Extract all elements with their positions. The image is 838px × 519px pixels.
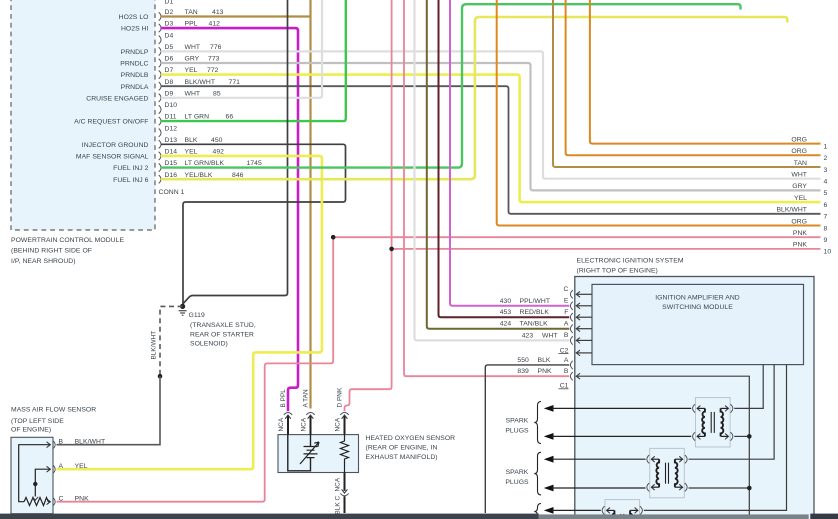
spark plug arrow 2: [544, 433, 554, 440]
svg-text:423: 423: [522, 332, 534, 339]
svg-text:D2: D2: [165, 9, 174, 16]
svg-text:LT GRN/BLK: LT GRN/BLK: [185, 160, 225, 167]
svg-text:YEL: YEL: [185, 149, 198, 156]
node D12: [159, 129, 161, 137]
svg-text:TAN: TAN: [185, 9, 198, 16]
svg-text:D10: D10: [165, 102, 178, 109]
svg-text:776: 776: [210, 44, 222, 51]
svg-text:PLUGS: PLUGS: [505, 427, 529, 434]
wire BLK 450 branch from top to G119: [183, 0, 288, 306]
node D16: [159, 175, 161, 183]
svg-text:YEL/BLK: YEL/BLK: [185, 172, 213, 179]
electronic ignition system box: [575, 277, 814, 519]
wire WHT 85 D9 up to top: [161, 0, 322, 98]
svg-text:PNK: PNK: [538, 368, 553, 375]
svg-text:7: 7: [824, 214, 828, 221]
svg-text:LT GRN: LT GRN: [185, 114, 210, 121]
ignition coil T3: [605, 500, 640, 519]
svg-text:ORG: ORG: [791, 148, 807, 155]
svg-text:A: A: [59, 463, 64, 470]
svg-text:NCA: NCA: [300, 417, 307, 431]
pin arrow B: [576, 338, 579, 343]
node HO2S ground pin C BLK: [344, 473, 346, 491]
node D8: [159, 82, 161, 90]
svg-text:D7: D7: [165, 67, 174, 74]
svg-text:A: A: [564, 321, 569, 328]
svg-text:A: A: [564, 357, 569, 364]
svg-text:B PPL: B PPL: [280, 389, 287, 408]
wire YEL 772 D7 to terminal 6: [161, 75, 821, 203]
node ignition pin F: [570, 313, 572, 321]
wire coil T3 top to module: [644, 365, 787, 511]
node D15: [159, 163, 161, 171]
node D9: [159, 94, 161, 102]
svg-text:WHT: WHT: [791, 172, 807, 179]
svg-text:BLK/WHT: BLK/WHT: [151, 331, 158, 360]
svg-text:E: E: [564, 298, 569, 305]
svg-text:B: B: [564, 332, 569, 339]
svg-text:CRUISE ENGAGED: CRUISE ENGAGED: [86, 95, 148, 102]
svg-text:D15: D15: [165, 160, 178, 167]
node D5: [159, 47, 161, 55]
svg-text:OF ENGINE): OF ENGINE): [11, 426, 51, 433]
svg-text:846: 846: [232, 172, 244, 179]
svg-text:A/C REQUEST ON/OFF: A/C REQUEST ON/OFF: [74, 119, 148, 126]
node MAF pin C: [53, 498, 55, 506]
svg-text:YEL: YEL: [794, 195, 807, 202]
svg-text:D12: D12: [165, 125, 178, 132]
svg-text:1745: 1745: [247, 160, 262, 167]
svg-text:(RIGHT TOP OF ENGINE): (RIGHT TOP OF ENGINE): [577, 267, 658, 274]
wire BLK 550 to ignition C1-A: [485, 365, 569, 513]
wire GRY 773 D6 to terminal 5: [161, 63, 821, 190]
wire PNK 839 from top to ignition B: [404, 0, 569, 376]
svg-text:D6: D6: [165, 56, 174, 63]
svg-text:PNK: PNK: [75, 496, 90, 503]
pin arrow E: [576, 303, 579, 308]
svg-text:492: 492: [213, 149, 225, 156]
wire TAN/BLK 424 to ignition A: [427, 0, 570, 329]
wire RED/BLK 453 to ignition F: [439, 0, 570, 317]
svg-text:PNK: PNK: [793, 242, 808, 249]
svg-text:PRNDLA: PRNDLA: [121, 84, 149, 91]
svg-text:PRNDLC: PRNDLC: [120, 61, 148, 68]
HO2S sensing element (variable emf): [288, 435, 311, 471]
svg-text:453: 453: [500, 309, 512, 316]
svg-text:839: 839: [517, 368, 529, 375]
wire TAN 413 horizontal from D2: [161, 15, 311, 17]
ground bus band (right dark segment): [810, 514, 838, 519]
svg-text:PLUGS: PLUGS: [505, 479, 529, 486]
wire PNK from top to HO2S D: [345, 0, 392, 411]
svg-text:413: 413: [212, 9, 224, 16]
wire BLK 450 D13 toward G119: [161, 144, 346, 306]
svg-text:YEL: YEL: [185, 67, 198, 74]
pin arrow F: [576, 315, 579, 320]
wire coil T2 top to module: [689, 365, 775, 460]
svg-text:66: 66: [226, 114, 234, 121]
svg-text:HO2S LO: HO2S LO: [119, 14, 149, 21]
svg-text:BLK C: BLK C: [334, 495, 341, 514]
wire ORG 8 terminal: [497, 0, 821, 226]
svg-text:85: 85: [213, 90, 221, 97]
svg-text:CONN 1: CONN 1: [159, 189, 185, 196]
splice junction S2 PNK: [389, 247, 394, 252]
svg-text:D PNK: D PNK: [336, 387, 343, 407]
svg-text:MASS AIR FLOW SENSOR: MASS AIR FLOW SENSOR: [11, 407, 96, 414]
wire BLK/WHT MAF B to splice: [57, 376, 161, 445]
svg-text:C: C: [59, 496, 64, 503]
wire WHT 776 D5 to terminal 4: [161, 51, 821, 178]
svg-text:430: 430: [500, 298, 512, 305]
svg-text:RED/BLK: RED/BLK: [520, 309, 550, 316]
svg-text:ELECTRONIC IGNITION SYSTEM: ELECTRONIC IGNITION SYSTEM: [577, 258, 684, 265]
svg-text:A TAN: A TAN: [302, 389, 309, 407]
wire YEL 492 D14 to MAF A: [57, 156, 322, 469]
svg-text:SWITCHING MODULE: SWITCHING MODULE: [662, 304, 733, 311]
node HO2S pin B: [284, 413, 292, 415]
node D4: [159, 36, 161, 44]
spark plug arrow 1: [544, 405, 554, 412]
svg-text:3: 3: [824, 167, 828, 174]
spark plugs brace 3: [534, 504, 541, 519]
spark plug arrow 4: [544, 485, 554, 492]
node D10: [159, 105, 161, 113]
svg-text:D3: D3: [165, 21, 174, 28]
svg-text:772: 772: [207, 67, 219, 74]
MAF internal circuit: [19, 445, 51, 502]
resistor in MAF: [24, 498, 50, 506]
node HO2S pin A: [306, 413, 314, 415]
svg-text:SPARK: SPARK: [506, 417, 529, 424]
svg-text:GRY: GRY: [792, 183, 807, 190]
svg-text:HEATED OXYGEN SENSOR: HEATED OXYGEN SENSOR: [366, 435, 456, 442]
ignition amplifier and switching module box U1: [592, 284, 804, 364]
wire YEL/BLK 846 D16 across top: [161, 17, 787, 179]
svg-text:WHT: WHT: [185, 90, 201, 97]
node D13: [159, 140, 161, 148]
wire TAN 413 (D2 to HO2S A, also up): [309, 0, 311, 409]
svg-text:EXHAUST MANIFOLD): EXHAUST MANIFOLD): [366, 454, 438, 461]
wire LT GRN 66 D11 up to top: [161, 0, 346, 121]
svg-text:FUEL INJ 2: FUEL INJ 2: [113, 165, 149, 172]
svg-text:TAN/BLK: TAN/BLK: [520, 321, 549, 328]
svg-text:BLK/WHT: BLK/WHT: [75, 439, 106, 446]
svg-text:C: C: [564, 286, 569, 293]
svg-text:D11: D11: [165, 114, 177, 121]
svg-text:1: 1: [824, 143, 828, 150]
svg-text:G119: G119: [189, 312, 205, 319]
splice junction S1 PNK: [331, 235, 336, 240]
svg-text:BLK: BLK: [538, 357, 551, 364]
svg-text:WHT: WHT: [185, 44, 201, 51]
node D11: [159, 117, 161, 125]
svg-text:NCA: NCA: [334, 477, 341, 491]
svg-text:BLK/WHT: BLK/WHT: [185, 79, 216, 86]
svg-text:I/P, NEAR SHROUD): I/P, NEAR SHROUD): [11, 258, 76, 265]
ignition coil T1: [696, 398, 731, 447]
heated oxygen sensor box: [278, 435, 359, 473]
svg-text:NCA: NCA: [334, 417, 341, 431]
svg-text:D1: D1: [165, 0, 174, 6]
svg-text:773: 773: [208, 56, 220, 63]
wire BLK/WHT dashed to G119: [160, 306, 183, 376]
node ignition pin A: [570, 325, 572, 333]
pin arrow C: [576, 292, 579, 297]
svg-text:INJECTOR GROUND: INJECTOR GROUND: [82, 142, 149, 149]
svg-text:BLK/WHT: BLK/WHT: [776, 207, 807, 214]
pin arrow A: [576, 326, 579, 331]
svg-text:PPL: PPL: [185, 21, 198, 28]
svg-text:B: B: [59, 439, 64, 446]
svg-text:ORG: ORG: [791, 136, 807, 143]
spark plugs brace 1: [534, 402, 541, 444]
node ignition pin A 550 BLK: [570, 361, 572, 369]
node ignition pin E: [570, 302, 572, 310]
node MAF pin A: [53, 465, 55, 473]
HO2S heater element: [341, 435, 349, 473]
svg-text:D9: D9: [165, 90, 174, 97]
wire PNK terminal 10 from splice S2: [392, 248, 821, 250]
svg-text:412: 412: [209, 21, 221, 28]
wire BLK/WHT 771 D8 to terminal 7: [161, 86, 821, 214]
svg-text:YEL: YEL: [75, 463, 88, 470]
wire WHT 423 to ignition B: [415, 0, 570, 340]
svg-text:REAR OF STARTER: REAR OF STARTER: [190, 331, 254, 338]
svg-text:IGNITION AMPLIFIER AND: IGNITION AMPLIFIER AND: [655, 295, 740, 302]
wire coil T2 bottom to pin B feed: [689, 487, 750, 489]
svg-text:9: 9: [824, 237, 828, 244]
node ignition pin B 839 PNK: [570, 372, 572, 380]
svg-text:(TOP LEFT SIDE: (TOP LEFT SIDE: [11, 418, 64, 425]
spark plug arrow 3: [544, 456, 554, 463]
node D3: [159, 24, 161, 32]
svg-text:D13: D13: [165, 137, 178, 144]
wire PNK MAF C to splice S1: [57, 237, 334, 502]
wire LT GRN/BLK 1745 D15 across top: [161, 4, 741, 167]
wire coil T1 bottom to pin B feed: [734, 435, 749, 437]
node ignition pin B: [570, 336, 572, 344]
wire PNK terminal 9 from splice S1: [333, 236, 820, 238]
node D7: [159, 70, 161, 78]
svg-text:PPL/WHT: PPL/WHT: [520, 298, 551, 305]
ground bus band (middle gray segment): [539, 514, 809, 519]
svg-text:771: 771: [229, 79, 241, 86]
svg-text:TAN: TAN: [794, 160, 807, 167]
svg-text:D5: D5: [165, 44, 174, 51]
svg-text:4: 4: [824, 179, 828, 186]
svg-text:FUEL INJ 6: FUEL INJ 6: [113, 177, 149, 184]
ground bus band at bottom (left dark segment): [0, 514, 539, 519]
svg-text:MAF SENSOR SIGNAL: MAF SENSOR SIGNAL: [76, 154, 149, 161]
node HO2S pin D: [340, 413, 348, 415]
svg-text:PRNDLB: PRNDLB: [121, 72, 149, 79]
svg-text:(TRANSAXLE STUD,: (TRANSAXLE STUD,: [190, 322, 256, 329]
wire coil T1 primary top to module: [734, 365, 763, 409]
svg-text:ORG: ORG: [791, 218, 807, 225]
svg-text:8: 8: [824, 225, 828, 232]
spark plug arrow 5: [544, 507, 554, 514]
mass air flow sensor box: [11, 437, 53, 513]
MAF wiper tap: [35, 469, 50, 496]
svg-text:(REAR OF ENGINE, IN: (REAR OF ENGINE, IN: [366, 445, 438, 452]
svg-text:PRNDLP: PRNDLP: [121, 49, 149, 56]
svg-text:5: 5: [824, 190, 828, 197]
svg-text:GRY: GRY: [185, 56, 200, 63]
ignition coil T2: [650, 448, 685, 497]
svg-text:WHT: WHT: [542, 332, 558, 339]
node MAF pin B: [53, 441, 55, 449]
node ignition pin C: [570, 290, 572, 298]
wire ORG terminal 1: [590, 0, 821, 144]
svg-text:BLK: BLK: [185, 137, 198, 144]
svg-text:D8: D8: [165, 79, 174, 86]
wire ORG terminal 2: [566, 0, 821, 155]
svg-text:424: 424: [500, 321, 512, 328]
svg-text:D14: D14: [165, 149, 178, 156]
wire PPL/WHT 430 to ignition E: [450, 0, 569, 306]
spark plugs brace 2: [534, 452, 541, 495]
svg-text:SOLENOID): SOLENOID): [190, 341, 228, 348]
svg-text:550: 550: [517, 357, 529, 364]
node D6: [159, 59, 161, 67]
svg-text:2: 2: [824, 155, 828, 162]
svg-text:10: 10: [824, 249, 832, 256]
svg-text:F: F: [564, 309, 568, 316]
svg-text:(BEHIND RIGHT SIDE OF: (BEHIND RIGHT SIDE OF: [11, 248, 92, 255]
ground G119 junction: [180, 304, 185, 309]
svg-text:POWERTRAIN CONTROL MODULE: POWERTRAIN CONTROL MODULE: [11, 237, 124, 244]
svg-text:D16: D16: [165, 172, 178, 179]
svg-text:B: B: [564, 368, 569, 375]
svg-text:450: 450: [211, 137, 223, 144]
node D14: [159, 152, 161, 160]
svg-text:PNK: PNK: [793, 230, 808, 237]
node D2: [159, 12, 161, 20]
wire TAN terminal 3: [553, 0, 821, 167]
svg-text:6: 6: [824, 202, 828, 209]
svg-text:NCA: NCA: [278, 417, 285, 431]
wire PPL 412 D3 to HO2S B: [161, 28, 298, 411]
svg-text:SPARK: SPARK: [506, 469, 529, 476]
svg-text:D4: D4: [165, 32, 174, 39]
splice junction on BLK/WHT: [158, 374, 163, 379]
svg-text:HO2S HI: HO2S HI: [121, 26, 149, 33]
PCM module box (dashed, light blue): [11, 0, 155, 230]
wire ignition coil feed from pin B: [576, 376, 749, 517]
